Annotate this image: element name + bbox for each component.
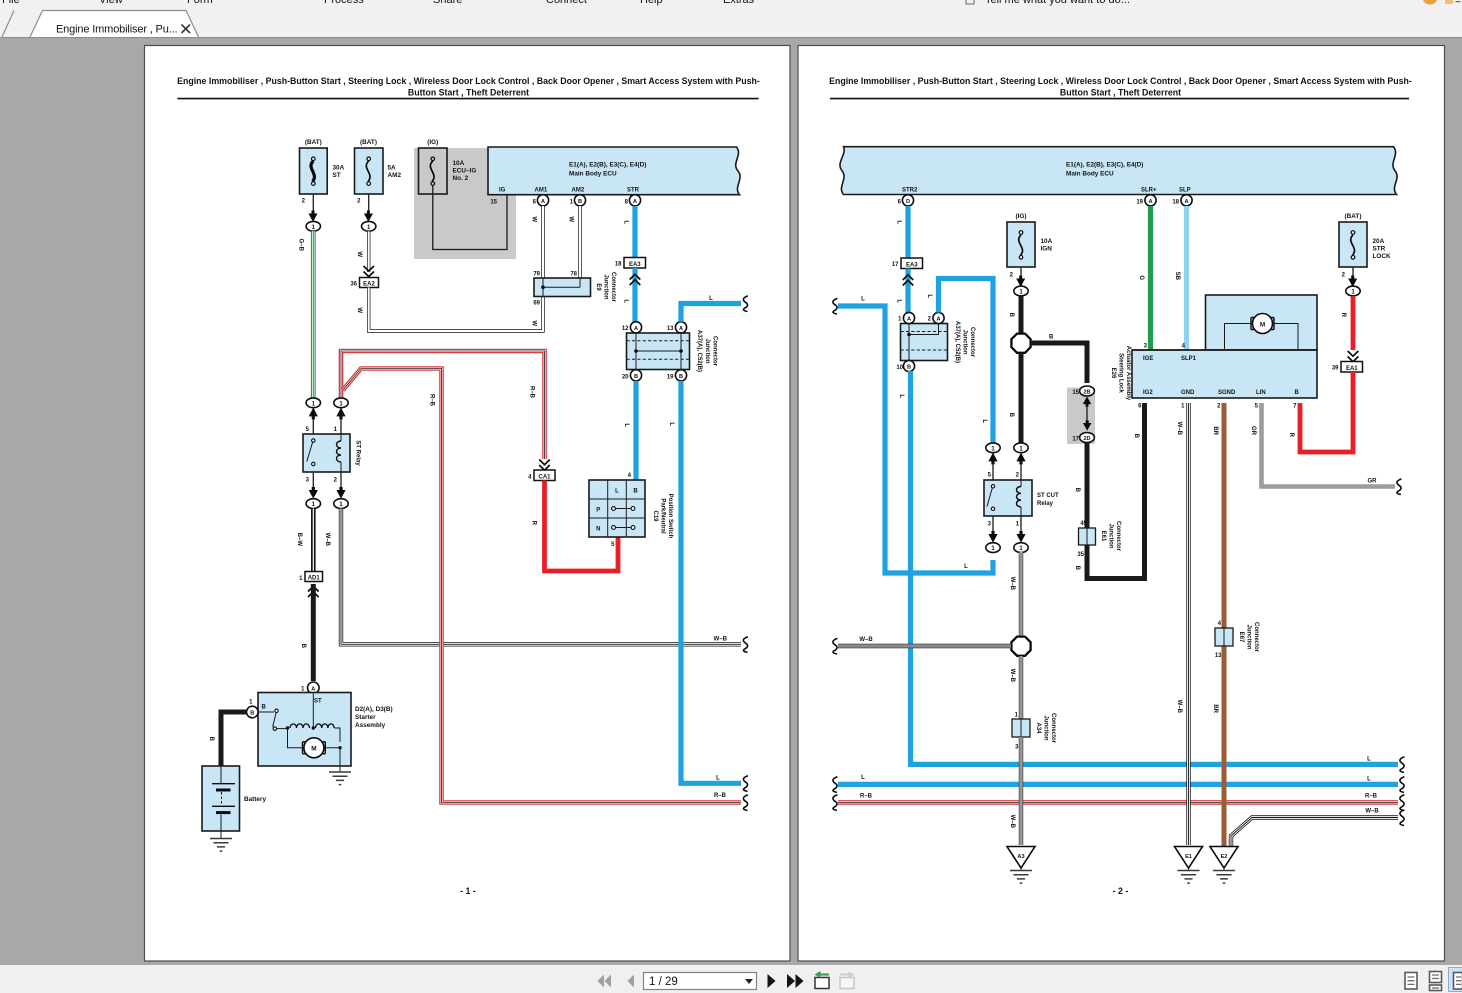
svg-text:13: 13: [1215, 653, 1222, 659]
wire B octagon right to 2B: [1030, 335, 1087, 384]
svg-text:L: L: [926, 294, 932, 298]
wire W-B octagon down to A34: [1009, 656, 1021, 719]
svg-text:10A: 10A: [453, 160, 465, 167]
svg-text:D: D: [906, 199, 910, 205]
svg-text:45: 45: [1080, 521, 1087, 527]
single page view icon: [1405, 973, 1417, 990]
ground E2: [1210, 847, 1238, 884]
svg-text:R–B: R–B: [429, 394, 435, 407]
wire L A37 pin10 down to right edge: [898, 371, 1404, 772]
svg-text:D2(A), D3(B): D2(A), D3(B): [355, 706, 393, 713]
svg-text:Main Body ECU: Main Body ECU: [569, 170, 617, 177]
svg-text:L: L: [716, 776, 720, 782]
ground E1: [1175, 847, 1203, 884]
svg-text:10A: 10A: [1041, 238, 1053, 245]
svg-text:STR: STR: [1373, 246, 1386, 253]
svg-text:EA2: EA2: [363, 282, 375, 288]
svg-text:19: 19: [1136, 200, 1143, 206]
wire W-B GND to ground E1: [1176, 403, 1189, 845]
last page button: [787, 974, 804, 988]
ECU pin 18(A): [1172, 195, 1192, 206]
svg-text:ST: ST: [314, 699, 322, 705]
svg-text:17: 17: [892, 262, 899, 268]
svg-text:L: L: [623, 220, 629, 224]
ECU pin 6(D): [898, 195, 914, 206]
svg-text:W–B: W–B: [1365, 809, 1379, 815]
wire B 2D to E61: [1074, 443, 1087, 529]
svg-text:EA3: EA3: [906, 263, 918, 269]
svg-text:5A: 5A: [388, 165, 397, 172]
junction connector A37(A),C52(B) page2: [901, 321, 976, 363]
A37 pin 10(B) page2: [896, 360, 914, 371]
svg-text:B: B: [1049, 335, 1054, 341]
svg-text:L: L: [861, 775, 865, 781]
svg-text:Connector: Connector: [610, 272, 616, 303]
svg-text:10: 10: [896, 365, 903, 371]
fuse 20A STR LOCK: [1339, 213, 1391, 296]
svg-text:Connector: Connector: [1115, 521, 1121, 552]
svg-text:L: L: [615, 488, 619, 494]
svg-text:W: W: [531, 216, 537, 222]
menu bar (clipped at top of window): [2, 0, 1462, 7]
svg-text:ST CUT: ST CUT: [1037, 493, 1059, 499]
svg-text:IG: IG: [499, 188, 506, 194]
svg-text:A: A: [311, 686, 315, 692]
battery ground: [210, 831, 232, 851]
svg-text:L: L: [1367, 757, 1371, 763]
svg-text:No. 2: No. 2: [453, 175, 469, 182]
oval 1 above relay pin5: [306, 398, 320, 408]
A37 pin 2(A) page2: [928, 312, 944, 323]
svg-text:L: L: [898, 394, 904, 398]
svg-text:18: 18: [1172, 200, 1179, 206]
svg-text:AD1: AD1: [308, 576, 321, 582]
next view icon (disabled): [840, 971, 855, 989]
svg-text:Button Start , Theft Deterrent: Button Start , Theft Deterrent: [408, 87, 529, 97]
svg-text:Junction: Junction: [962, 330, 968, 355]
svg-text:- 1 -: - 1 -: [460, 886, 476, 896]
svg-text:BR: BR: [1212, 426, 1218, 435]
svg-text:E61: E61: [1100, 531, 1106, 542]
svg-text:L: L: [896, 299, 902, 303]
wire L A37 pin19 to right edge: [668, 381, 748, 791]
svg-text:Junction: Junction: [1043, 716, 1049, 741]
svg-text:Relay: Relay: [1037, 501, 1054, 507]
svg-text:G: G: [1138, 275, 1144, 280]
svg-text:Extras: Extras: [723, 0, 755, 6]
svg-text:W–B: W–B: [859, 637, 873, 643]
svg-text:B: B: [1133, 434, 1139, 439]
svg-text:R–B: R–B: [529, 386, 535, 399]
A37 pin 1(A) page2: [898, 312, 914, 323]
svg-text:W: W: [356, 251, 362, 257]
svg-text:A: A: [633, 199, 637, 205]
svg-text:Process: Process: [324, 0, 364, 6]
wire W-B octagon to left edge: [833, 637, 1011, 654]
svg-text:A: A: [634, 326, 638, 332]
junction connector E9: [533, 272, 616, 307]
wire R-B branch to page bottom right: [343, 369, 748, 811]
wire L from STR to EA3: [623, 206, 636, 257]
svg-text:GR: GR: [1368, 479, 1378, 485]
svg-text:A: A: [1148, 199, 1152, 205]
svg-text:EA1: EA1: [1346, 366, 1358, 372]
oval 1 above relay pin1: [334, 398, 348, 408]
ST relay: [303, 427, 361, 484]
svg-text:Engine Immobiliser , Push-Butt: Engine Immobiliser , Push-Button Start ,…: [829, 76, 1412, 86]
tab strip: [0, 6, 1462, 37]
svg-text:(BAT): (BAT): [305, 139, 322, 146]
svg-text:Connector: Connector: [712, 336, 718, 367]
svg-text:B: B: [1074, 566, 1080, 571]
starter ground: [329, 766, 351, 785]
wire B-W relay pin3 to AD1: [296, 509, 313, 572]
svg-text:W–B: W–B: [1176, 700, 1182, 714]
svg-text:L: L: [964, 564, 968, 570]
main body ECU box page2: [840, 147, 1397, 195]
svg-text:L: L: [623, 423, 629, 427]
svg-text:A: A: [907, 317, 911, 323]
ECU pin 19(A): [1136, 195, 1156, 206]
svg-text:File: File: [2, 0, 20, 6]
svg-text:B: B: [1074, 488, 1080, 493]
svg-text:C19: C19: [652, 510, 658, 522]
svg-text:P: P: [596, 507, 600, 513]
svg-text:R: R: [1288, 433, 1294, 438]
svg-text:IGN: IGN: [1041, 246, 1053, 253]
svg-text:E1(A), E2(B), E3(C), E4(D): E1(A), E2(B), E3(C), E4(D): [569, 161, 646, 168]
svg-text:N: N: [596, 526, 600, 532]
svg-text:B: B: [208, 737, 214, 742]
svg-text:(BAT): (BAT): [360, 139, 377, 146]
wire W-B A34 to ground A3: [1009, 737, 1021, 845]
svg-text:EA3: EA3: [629, 262, 641, 268]
svg-text:A: A: [679, 326, 683, 332]
svg-text:A37(A), C52(B): A37(A), C52(B): [954, 321, 960, 363]
svg-text:19: 19: [667, 375, 674, 381]
wire GR LIN to right edge: [1250, 403, 1401, 495]
svg-text:Junction: Junction: [704, 339, 710, 364]
svg-text:Engine Immobiliser , Push-Butt: Engine Immobiliser , Push-Button Start ,…: [177, 76, 760, 86]
chevron into EA2: [364, 266, 375, 277]
partial tab at far left: [2, 11, 14, 38]
fuse 10A IGN: [1007, 213, 1053, 296]
wire R EA1 to actuator pin7: [1288, 372, 1353, 452]
wire R CA1 to C19 pin5: [531, 481, 619, 572]
A37 pin 13(A): [667, 322, 687, 333]
svg-text:B: B: [1295, 390, 1300, 396]
wire W from EA2 to E9 pin 69: [356, 288, 543, 332]
svg-text:B: B: [262, 705, 267, 711]
svg-text:13: 13: [667, 326, 674, 332]
svg-text:L: L: [861, 297, 865, 303]
svg-text:A: A: [936, 317, 940, 323]
svg-text:17: 17: [1072, 437, 1079, 443]
park/neutral position switch C19: [589, 473, 673, 548]
svg-text:BR: BR: [1212, 704, 1218, 713]
svg-text:15: 15: [1072, 390, 1079, 396]
wire G SLR+ to actuator pin3: [1138, 206, 1151, 350]
svg-text:R–B: R–B: [860, 794, 873, 800]
wire L STR2 to EA3: [896, 206, 909, 258]
wire G-B from fuse 30A to relay pin5: [298, 231, 314, 399]
svg-text:E2: E2: [1221, 854, 1228, 860]
svg-text:Share: Share: [433, 0, 462, 6]
relay pin3 oval page2: [992, 516, 994, 535]
svg-text:36: 36: [350, 282, 357, 288]
svg-text:Button Start , Theft Deterrent: Button Start , Theft Deterrent: [1060, 87, 1181, 97]
wire L EA3 to A37 pin12: [623, 268, 641, 322]
svg-text:Battery: Battery: [244, 796, 266, 803]
connector EA1: [1332, 362, 1363, 373]
svg-text:W: W: [356, 307, 362, 313]
svg-text:ST Relay: ST Relay: [355, 440, 361, 466]
wire W-B relay pin2 to right edge: [324, 509, 748, 653]
svg-text:E26: E26: [1110, 368, 1116, 379]
svg-text:20A: 20A: [1373, 238, 1385, 245]
wire W-B relay pin1 to octagon J2: [1009, 552, 1021, 637]
svg-text:IG2: IG2: [1143, 390, 1153, 396]
svg-text:2B: 2B: [1083, 390, 1090, 396]
svg-text:M: M: [311, 746, 316, 753]
svg-text:L: L: [981, 419, 987, 423]
oval 1 above relay pin5 page2: [986, 443, 1000, 453]
svg-text:R: R: [531, 521, 537, 526]
wire L from left edge to ST CUT relay pin3: [833, 297, 993, 574]
connector EA2: [350, 278, 378, 288]
junction connector A34: [1012, 713, 1056, 751]
svg-text:1 / 29: 1 / 29: [649, 976, 678, 988]
fuse 5A AM2: [355, 139, 402, 231]
svg-text:AM2: AM2: [388, 172, 402, 179]
svg-text:A: A: [1184, 199, 1188, 205]
wire W fuse AM2 to EA2: [356, 231, 369, 272]
A37 pin 20(B): [622, 370, 642, 381]
connector CA1: [528, 470, 555, 481]
svg-text:A: A: [541, 199, 545, 205]
wire W from AM1 to E9: [531, 206, 544, 278]
svg-text:ST: ST: [333, 172, 341, 179]
wire B starter pin B to battery: [208, 712, 247, 766]
svg-text:SLR+: SLR+: [1141, 188, 1157, 194]
svg-text:2D: 2D: [1083, 436, 1090, 442]
svg-text:Form: Form: [187, 0, 213, 6]
svg-text:B–W: B–W: [296, 533, 302, 547]
svg-text:W–B: W–B: [1009, 815, 1015, 829]
svg-text:CA1: CA1: [538, 475, 551, 481]
steering lock actuator assembly E26: [1110, 295, 1317, 410]
svg-text:W: W: [531, 320, 537, 326]
wire R-B relay pin1 to CA1: [341, 351, 545, 459]
svg-text:A3: A3: [1017, 854, 1024, 860]
svg-text:L: L: [896, 220, 902, 224]
ECU pin 1(B): [570, 195, 586, 206]
wire R fuse to EA1: [1340, 296, 1358, 362]
svg-text:L: L: [1367, 777, 1371, 783]
svg-text:STR: STR: [627, 188, 640, 194]
svg-text:Position Switch: Position Switch: [667, 494, 673, 539]
svg-text:Connector: Connector: [1050, 713, 1056, 744]
gray harness shade region: [414, 148, 516, 259]
svg-text:W: W: [568, 216, 574, 222]
octagon junction J1: [1011, 334, 1030, 353]
svg-text:SLP: SLP: [1179, 188, 1191, 194]
wire B AD1 to starter pin A: [300, 584, 313, 681]
svg-text:R: R: [1340, 313, 1346, 318]
wire B E61 to actuator IG2: [1074, 403, 1145, 579]
svg-text:R–B: R–B: [1365, 794, 1378, 800]
svg-text:18: 18: [615, 262, 622, 268]
svg-text:SB: SB: [1174, 272, 1180, 281]
svg-text:SGND: SGND: [1218, 390, 1236, 396]
svg-text:78: 78: [570, 272, 577, 278]
svg-text:(IG): (IG): [1015, 213, 1026, 220]
svg-text:Steering Lock: Steering Lock: [1118, 353, 1124, 393]
wire L EA3 to A37 pin1 page2: [896, 269, 914, 314]
svg-text:AM1: AM1: [535, 188, 548, 194]
wire SB SLP to actuator pin4: [1174, 206, 1187, 350]
svg-text:Junction: Junction: [1246, 625, 1252, 650]
svg-text:L: L: [668, 422, 674, 426]
gray connector pass-through 2B/2D: [1067, 388, 1095, 445]
svg-text:Connector: Connector: [969, 327, 975, 358]
svg-text:View: View: [99, 0, 123, 6]
svg-text:W–B: W–B: [714, 637, 728, 643]
svg-text:L: L: [623, 299, 629, 303]
wire R-B from left edge to right edge: [833, 794, 1405, 811]
junction connector E67: [1215, 621, 1259, 659]
svg-text:79: 79: [533, 272, 540, 278]
svg-text:W–B: W–B: [1009, 669, 1015, 683]
prev page button (disabled): [628, 975, 635, 988]
svg-text:GND: GND: [1181, 390, 1195, 396]
svg-text:LOCK: LOCK: [1373, 253, 1391, 260]
svg-text:69: 69: [533, 301, 540, 307]
svg-text:E67: E67: [1238, 632, 1244, 643]
main body ECU box page1: [488, 147, 740, 195]
ground A3: [1007, 847, 1035, 884]
svg-text:E1(A), E2(B), E3(C), E4(D): E1(A), E2(B), E3(C), E4(D): [1066, 161, 1143, 168]
svg-text:Actuator Assembly: Actuator Assembly: [1125, 346, 1131, 401]
ECU pin 8(A): [625, 195, 641, 206]
wire L A37 pin2 up-over to ST CUT relay pin5: [926, 279, 993, 444]
svg-text:W–B: W–B: [1009, 577, 1015, 591]
svg-text:L: L: [709, 296, 713, 302]
svg-text:15: 15: [490, 200, 497, 206]
starter pin 1(A): [301, 682, 319, 694]
connector AD1: [299, 572, 322, 598]
svg-text:STR2: STR2: [902, 188, 918, 194]
svg-text:Assembly: Assembly: [355, 722, 386, 729]
wire BR SGND to ground E2: [1212, 403, 1224, 846]
svg-text:12: 12: [622, 326, 629, 332]
ST CUT relay: [984, 473, 1059, 528]
svg-text:W–B: W–B: [324, 533, 330, 547]
svg-text:Main Body ECU: Main Body ECU: [1066, 170, 1114, 177]
junction connector E61: [1077, 521, 1121, 558]
svg-text:20: 20: [622, 375, 629, 381]
svg-text:B: B: [300, 644, 306, 649]
chevron into CA1: [539, 460, 550, 471]
svg-text:Help: Help: [640, 0, 663, 6]
svg-text:(BAT): (BAT): [1345, 213, 1362, 220]
page combo box: [644, 973, 757, 990]
page 1 sheet: [145, 46, 791, 962]
fuse 30A ST: [300, 139, 345, 231]
wire W-B from right edge diagonal into ground E2: [1231, 809, 1404, 847]
svg-text:Connector: Connector: [1253, 622, 1259, 653]
svg-text:G–B: G–B: [298, 239, 304, 252]
junction connector A37(A),C52(B) page1: [627, 330, 718, 372]
svg-text:AM2: AM2: [572, 188, 585, 194]
svg-text:Junction: Junction: [1108, 524, 1114, 549]
svg-text:B: B: [1008, 313, 1014, 318]
svg-text:(IG): (IG): [427, 139, 438, 146]
svg-text:B: B: [1008, 413, 1014, 418]
relay pin2 lead and oval: [340, 472, 342, 491]
connector EA3 page2: [892, 258, 923, 269]
svg-text:B: B: [634, 374, 638, 380]
svg-text:30A: 30A: [333, 165, 345, 172]
svg-text:B: B: [250, 711, 254, 717]
wire B octagon to relay pin2: [1008, 353, 1021, 443]
svg-text:ECU–IG: ECU–IG: [453, 168, 477, 175]
svg-text:E9: E9: [595, 283, 601, 291]
A37 pin 12(A): [622, 322, 642, 333]
battery: [202, 766, 266, 831]
svg-text:A37(A), C52(B): A37(A), C52(B): [696, 330, 702, 372]
wire L A37 pin20 to C19 pin4: [623, 381, 636, 480]
svg-text:35: 35: [1077, 552, 1084, 558]
svg-text:B: B: [578, 199, 582, 205]
svg-text:Connect: Connect: [546, 0, 587, 6]
relay pin2 oval page2: [1014, 443, 1028, 453]
page 2 sheet: [798, 46, 1445, 962]
starter assembly D2(A),D3(B): [247, 693, 393, 767]
svg-text:B: B: [633, 488, 638, 494]
svg-text:B: B: [907, 365, 911, 371]
svg-text:- 2 -: - 2 -: [1113, 886, 1129, 896]
svg-text:GR: GR: [1250, 426, 1256, 436]
relay pin1 lead oval page2: [1020, 516, 1022, 535]
svg-text:M: M: [1260, 321, 1265, 328]
svg-text:Tell me what you want to do...: Tell me what you want to do...: [985, 0, 1130, 6]
ECU pin 6(A): [533, 195, 549, 206]
svg-text:B: B: [679, 374, 683, 380]
svg-text:E1: E1: [1185, 854, 1192, 860]
wire fuse ECU-IG to ECU pin 15: [433, 185, 507, 250]
first page button (disabled): [598, 975, 612, 988]
svg-text:R–B: R–B: [714, 793, 727, 799]
A37 pin 19(B): [667, 370, 687, 381]
svg-text:Starter: Starter: [355, 714, 376, 721]
active document tab: [30, 11, 199, 38]
connector EA3 page1: [615, 258, 646, 269]
svg-text:Park/Neutral: Park/Neutral: [660, 498, 666, 534]
next page button: [768, 974, 776, 988]
continuous page view icon: [1430, 972, 1442, 991]
wire W from AM2 to E9: [568, 206, 581, 278]
wire L lower from left edge to right edge: [833, 775, 1405, 792]
previous view icon: [815, 971, 830, 989]
svg-text:Junction: Junction: [603, 275, 609, 300]
wire L from A37 pin13 to right edge: [681, 296, 748, 322]
svg-text:LIN: LIN: [1256, 390, 1266, 396]
two page view icon (active, highlighted): [1449, 968, 1462, 992]
svg-text:SLP1: SLP1: [1181, 356, 1197, 362]
relay pin3 lead and oval: [312, 472, 314, 491]
wire B fuse IGN to octagon: [1008, 296, 1021, 334]
